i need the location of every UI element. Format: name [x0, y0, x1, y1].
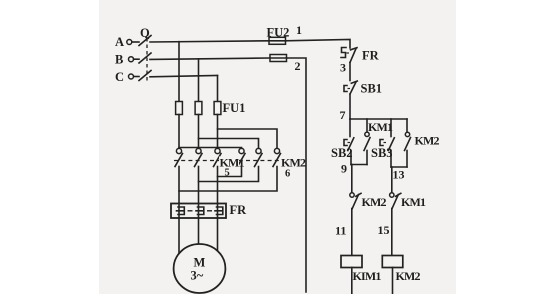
- svg-text:KM2: KM2: [396, 269, 421, 283]
- contactor KM1 main contact 3: [214, 148, 222, 166]
- contactor KM2 main contact 6: [273, 148, 281, 166]
- svg-text:FU1: FU1: [223, 101, 246, 115]
- svg-text:SB2: SB2: [331, 146, 353, 160]
- svg-text:KM2: KM2: [415, 134, 440, 148]
- wire contact3 down to FR: [217, 167, 219, 204]
- wire contact1 down to FR: [178, 167, 180, 204]
- wire line 2: [287, 58, 307, 292]
- wire crossover C to contact4 bottom: [218, 167, 242, 177]
- node 9 wire: [351, 164, 367, 166]
- wire phase C vertical: [217, 76, 219, 102]
- label KM1 main: [219, 156, 245, 170]
- coil KM1: [341, 256, 362, 268]
- fuse FU2 upper: [269, 37, 286, 44]
- svg-text:FR: FR: [362, 49, 380, 63]
- contactor KM2 main contact 4: [238, 148, 246, 166]
- svg-text:KM1: KM1: [368, 120, 393, 134]
- fuse FU1 a: [176, 102, 183, 115]
- wire FR to motor u: [178, 218, 180, 254]
- svg-text:KM1: KM1: [401, 195, 426, 209]
- wire crossover B to contact5 bottom: [199, 167, 259, 182]
- contactor KM1 main contact 2: [195, 148, 203, 166]
- wire phase A vertical: [178, 42, 180, 102]
- mechanical linkage dashes: [174, 160, 282, 162]
- terminal C: [115, 70, 139, 84]
- svg-text:A: A: [115, 35, 124, 49]
- wire KM1 NC to coil KM2: [391, 209, 393, 256]
- svg-text:SB1: SB1: [361, 82, 383, 96]
- motor M: [174, 244, 226, 293]
- coil KM2: [382, 256, 403, 268]
- wire A to KM2 contact 4 top: [179, 148, 242, 150]
- wire phase A: [150, 41, 269, 42]
- wire B to KM2 contact 5 top: [199, 139, 259, 150]
- contact FR NC control: [341, 48, 357, 63]
- svg-text:11: 11: [335, 224, 346, 238]
- terminal B: [115, 53, 139, 67]
- svg-text:3~: 3~: [191, 269, 204, 283]
- svg-text:FU2: FU2: [267, 26, 290, 40]
- button SB2: [344, 119, 354, 165]
- wire FR to motor v: [198, 218, 200, 245]
- contactor KM1 main contact 1: [175, 148, 183, 166]
- contact KM1 NC interlock: [390, 193, 401, 209]
- wire line 1: [286, 40, 351, 49]
- terminal A: [115, 35, 139, 49]
- thermal relay FR heaters: [171, 204, 226, 219]
- svg-text:1: 1: [296, 23, 302, 37]
- fuse FU2 lower: [270, 55, 287, 62]
- svg-text:KIM1: KIM1: [353, 269, 382, 283]
- contact KM2 NC interlock: [350, 193, 361, 209]
- wire contact2 down to FR: [198, 167, 200, 204]
- wire phase B vertical: [198, 59, 200, 102]
- fuse FU1 b: [195, 102, 202, 115]
- contactor KM2 main contact 5: [255, 148, 263, 166]
- node 7 wire: [350, 118, 407, 120]
- wire KM2 NC to coil KM1: [351, 209, 353, 256]
- svg-text:13: 13: [393, 168, 405, 182]
- contact KM2 NO aux: [405, 119, 411, 167]
- svg-text:15: 15: [378, 223, 390, 237]
- svg-text:M: M: [194, 256, 206, 270]
- contact KM1 NO aux: [364, 119, 370, 165]
- wire phase B: [150, 58, 270, 59]
- svg-text:3: 3: [340, 61, 346, 75]
- wire node9 to KM2 NC: [351, 165, 353, 194]
- svg-text:2: 2: [295, 59, 301, 73]
- svg-text:C: C: [115, 70, 124, 84]
- wire fuse a to contact 1: [178, 115, 180, 150]
- svg-text:9: 9: [341, 162, 347, 176]
- svg-text:FR: FR: [230, 203, 248, 217]
- button SB1: [344, 81, 357, 94]
- wire crossover A to contact6 bottom: [179, 167, 277, 192]
- svg-text:KM2: KM2: [281, 156, 306, 170]
- wire SB1 to node 7: [349, 94, 351, 119]
- svg-text:7: 7: [340, 108, 346, 122]
- switch Q: [139, 26, 151, 81]
- svg-text:SB3: SB3: [371, 146, 393, 160]
- svg-text:B: B: [115, 53, 123, 67]
- wire coil KM2 down: [392, 268, 394, 295]
- fuse FU1 c: [214, 102, 221, 115]
- wire fuse b to contact 2: [198, 115, 200, 150]
- svg-text:6: 6: [285, 169, 290, 180]
- wire node13 to KM1 NC: [391, 167, 393, 193]
- wire FR to motor w: [217, 218, 219, 251]
- button SB3: [380, 119, 394, 167]
- wire coil KM1 down: [351, 268, 353, 295]
- node 13 wire: [391, 166, 407, 168]
- wire FR to SB1: [349, 63, 351, 81]
- wire fuse c to contact 3: [217, 115, 219, 150]
- svg-text:KM2: KM2: [362, 195, 387, 209]
- wire phase C: [150, 76, 218, 77]
- wire C to KM2 contact 6 top: [218, 129, 278, 149]
